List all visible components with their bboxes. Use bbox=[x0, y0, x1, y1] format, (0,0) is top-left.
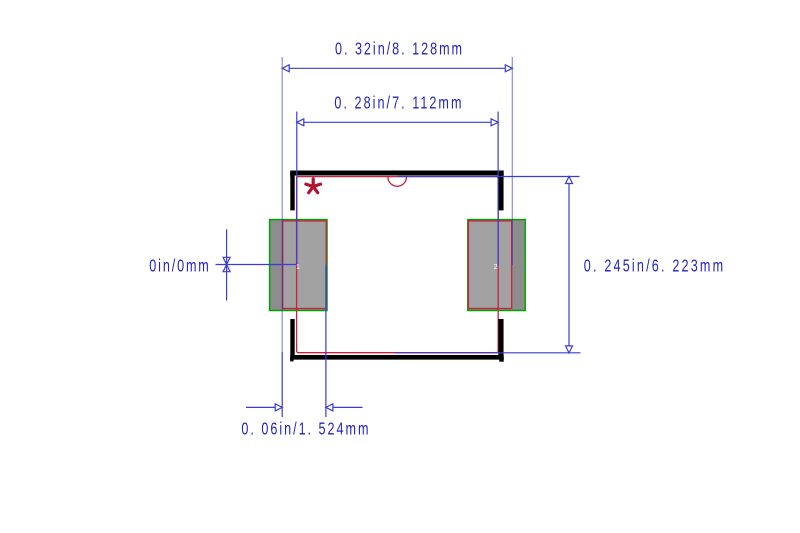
origin marker lower triangle bbox=[223, 265, 230, 272]
origin marker upper triangle bbox=[223, 257, 230, 264]
svg-text:0. 245in/6. 223mm: 0. 245in/6. 223mm bbox=[584, 256, 723, 276]
extension line right outer (0.32in) bbox=[511, 57, 513, 265]
extension line 0.06in right bbox=[325, 265, 327, 418]
extension line left inner (0.28in) bbox=[296, 112, 298, 266]
arrowhead top (0.245in) bbox=[566, 177, 573, 184]
extension line bottom horizontal (0.245in) bbox=[395, 352, 581, 354]
silkscreen right lower segment bbox=[498, 319, 503, 360]
arrowhead pointing left (0.06in) bbox=[326, 404, 333, 411]
dimension line 0.32in bbox=[282, 67, 512, 69]
pad 1 (copper, gray fill with green mask outline) bbox=[270, 220, 327, 311]
silkscreen corner notch bottom-right bbox=[499, 357, 503, 362]
arrowhead right (0.28in) bbox=[491, 119, 498, 126]
component body outline (assembly, red) bbox=[297, 177, 499, 353]
silkscreen left upper segment bbox=[290, 171, 294, 211]
arrowhead pointing right (0.06in) bbox=[275, 404, 282, 411]
dimension tail right (0.06in) bbox=[326, 406, 363, 408]
extension line left outer lower (0.06in) bbox=[281, 352, 283, 417]
origin vertical line bbox=[226, 229, 228, 300]
silkscreen corner notch top-left bbox=[290, 173, 293, 177]
pad 2 (copper, gray fill with green mask outline) bbox=[468, 220, 525, 311]
origin horizontal leader to pad 1 center bbox=[216, 264, 299, 266]
dimension tail left (0.06in) bbox=[246, 406, 282, 408]
silkscreen bottom line (black) bbox=[290, 355, 503, 360]
arrowhead bottom (0.245in) bbox=[566, 346, 573, 353]
pin 1 asterisk marker (red) bbox=[306, 179, 321, 193]
dimension line 0.245in vertical bbox=[568, 177, 570, 353]
silkscreen right upper segment bbox=[498, 171, 503, 211]
silkscreen corner notch bottom-left bbox=[290, 357, 293, 361]
svg-text:1: 1 bbox=[296, 264, 300, 271]
extension line left outer (0.32in) bbox=[281, 57, 283, 352]
extension line top horizontal (0.245in) bbox=[397, 176, 579, 178]
svg-text:2: 2 bbox=[494, 264, 498, 271]
polarity arc (assembly, red) bbox=[388, 177, 407, 186]
dimension line 0.28in bbox=[297, 121, 498, 123]
pad 1 termination (assembly, red outline, lighter fill) bbox=[283, 221, 327, 309]
arrowhead right (0.32in) bbox=[505, 65, 512, 72]
arrowhead left (0.32in) bbox=[282, 65, 289, 72]
silkscreen top line (black) bbox=[290, 171, 503, 176]
extension line right inner (0.28in) bbox=[497, 112, 499, 266]
arrowhead left (0.28in) bbox=[297, 119, 304, 126]
silkscreen left lower segment bbox=[290, 319, 294, 360]
svg-text:0in/0mm: 0in/0mm bbox=[149, 256, 209, 276]
pad 2 termination (assembly, red outline, lighter fill) bbox=[468, 221, 511, 309]
